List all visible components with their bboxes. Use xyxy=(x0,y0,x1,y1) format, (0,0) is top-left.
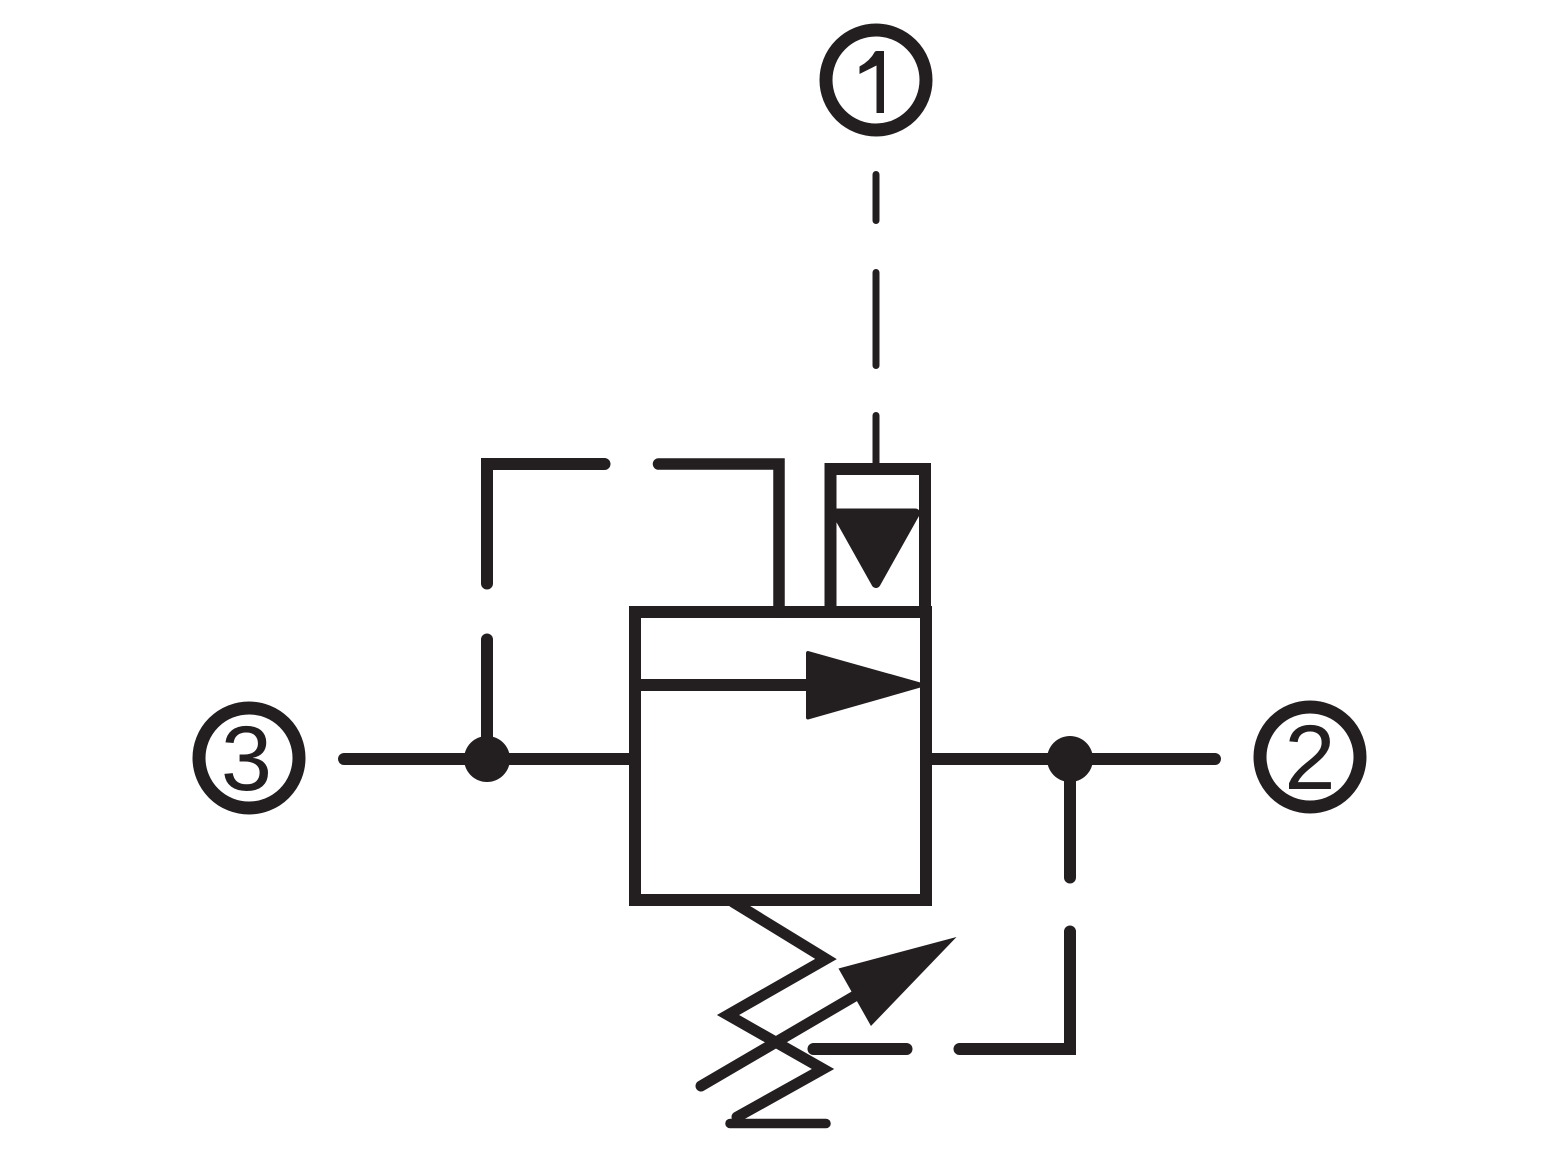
port 3 circle xyxy=(199,708,299,808)
spring bottom coil end xyxy=(730,1119,826,1129)
wire: lower vertical dash at x=487 xyxy=(481,640,493,763)
wire: corner dash at (1070,1049) xyxy=(960,932,1071,1050)
spring (zigzag below valve body) xyxy=(728,902,826,1117)
pilot triangle (filled, pointing down) xyxy=(837,513,916,584)
adjustment arrow head (filled) xyxy=(843,943,947,1021)
valve body (main square envelope) xyxy=(635,612,926,900)
node A (junction dot on port 3 wire) xyxy=(464,736,510,782)
node B (junction dot on port 2 wire) xyxy=(1047,736,1093,782)
port 2 circle xyxy=(1260,707,1360,807)
left pilot line (dashed L from node A up and over to drop wire) xyxy=(487,464,605,762)
adjustment arrow shaft (diagonal through spring) xyxy=(701,993,860,1086)
port 2 wire xyxy=(926,753,1215,765)
flow path line inside valve body xyxy=(635,679,812,691)
solid pilot drop wire into valve body top (with leading dash) xyxy=(659,464,780,612)
right pilot line (dashed from node B down and left to spring side) xyxy=(814,758,1071,1049)
pilot line from port 1 (thin dashed vertical wire) xyxy=(873,175,880,464)
pilot cavity box (small rectangle above valve body) xyxy=(831,469,926,612)
port 1 label "1" xyxy=(860,51,885,113)
wire: upper vertical dash at x=1070 xyxy=(1064,758,1076,878)
port 3 wire xyxy=(344,753,635,765)
wire: corner dash at (487,464) xyxy=(487,464,605,584)
port 1 circle xyxy=(826,30,926,130)
svg-text:3: 3 xyxy=(221,708,272,810)
flow path arrow (filled, pointing right) xyxy=(808,653,922,718)
svg-text:2: 2 xyxy=(1284,707,1335,809)
wire: horizontal dash at y=1049 xyxy=(814,1043,907,1055)
